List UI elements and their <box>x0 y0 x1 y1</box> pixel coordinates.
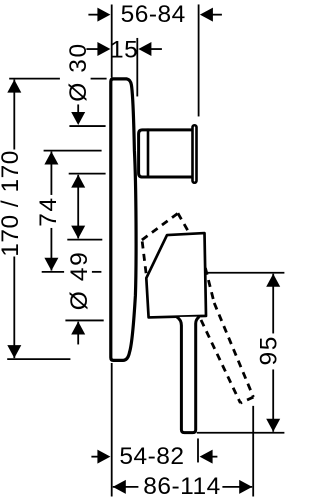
escutcheon plate (side view) <box>111 79 136 361</box>
arrow 95 bottom <box>266 419 280 432</box>
extension line lever edge <box>197 438 199 462</box>
arrow 86-114 left <box>113 480 126 494</box>
svg-text:54-82: 54-82 <box>119 443 184 470</box>
dim 95 top bar <box>206 272 284 274</box>
arrow 54-82 left <box>97 450 110 464</box>
svg-text:56-84: 56-84 <box>121 1 186 28</box>
svg-text:86-114: 86-114 <box>143 473 220 500</box>
dim D30 bottom bar <box>69 173 106 175</box>
dim 170 bottom bar <box>7 358 70 360</box>
arrow 170 bottom <box>7 345 21 358</box>
svg-text:95: 95 <box>256 335 283 365</box>
arrow D49 top <box>71 226 85 239</box>
arrow 15 right <box>138 42 151 56</box>
lever (solid, pointing down) <box>177 317 199 433</box>
arrow D30 top <box>71 112 85 125</box>
extension line wall top <box>111 4 113 77</box>
dim 170 top bar left piece <box>9 78 60 80</box>
svg-text:Ø 30: Ø 30 <box>65 42 92 102</box>
arrow 74 top <box>44 152 58 165</box>
arrow 56-84 right <box>200 8 213 22</box>
dim 86-114 right line segment <box>222 486 252 488</box>
extension line wall bottom <box>111 363 113 497</box>
arrow D30 bottom <box>71 175 85 188</box>
dim D49 bottom bar <box>65 319 103 321</box>
dim 95 line upper segment <box>272 274 274 334</box>
extension line knob end <box>198 4 200 116</box>
knob end cap <box>193 125 197 183</box>
knob body top edge <box>148 128 192 131</box>
arrow 170 top <box>7 80 21 93</box>
svg-text:170 / 170: 170 / 170 <box>0 150 24 257</box>
extension line dashed lever end <box>252 406 254 497</box>
arrow D49 bottom <box>71 321 85 334</box>
dim 74 bottom bar left piece <box>42 271 64 273</box>
handle base (solid) <box>146 233 206 317</box>
dashed handle outline rotated - right edge <box>205 268 214 303</box>
knob body bottom edge <box>148 176 192 179</box>
dashed lever right line <box>214 303 253 397</box>
dim 15 left arrow tail <box>86 48 100 50</box>
dim 56-84 right arrow tail <box>210 14 222 16</box>
dim 56-84 left arrow tail <box>88 14 100 16</box>
dim 170 line lower segment <box>13 256 15 358</box>
dim 86-114 left line segment <box>113 486 139 488</box>
arrow 86-114 right <box>239 480 252 494</box>
dim D30 upper arrow tail <box>77 104 79 115</box>
dashed lever end cap <box>240 397 253 403</box>
dim 74 bottom bar right piece <box>92 271 102 273</box>
svg-text:74: 74 <box>35 196 62 226</box>
dim 54-82 left arrow tail <box>91 456 100 458</box>
arrow 74 bottom <box>44 258 58 271</box>
dim 74 line lower segment <box>50 228 52 271</box>
dashed handle outline rotated - left edge <box>142 241 146 276</box>
dim 74 top bar <box>44 150 102 152</box>
dim 54-82 right arrow tail <box>210 456 217 458</box>
arrow 95 top <box>266 274 280 287</box>
knob collar <box>139 130 148 177</box>
dim 95 bottom bar <box>197 432 285 434</box>
dim 170 line upper segment <box>13 80 15 150</box>
svg-text:Ø 49: Ø 49 <box>66 251 93 311</box>
svg-text:15: 15 <box>110 36 138 63</box>
extension line knob grip start <box>136 38 138 96</box>
shared arrow line D30-D49 <box>77 175 79 239</box>
dashed handle outline rotated - right top edge <box>178 213 189 233</box>
dim D49 top bar <box>67 239 102 241</box>
dim D49 lower arrow tail <box>77 322 79 345</box>
dim 95 line lower segment <box>272 369 274 431</box>
dim 170 top bar right piece <box>91 78 107 80</box>
dashed lever left line <box>201 320 240 403</box>
arrow 15 left <box>97 42 110 56</box>
dim D30 top bar <box>69 125 105 127</box>
arrow 56-84 left <box>97 8 110 22</box>
dim 74 line upper segment <box>50 152 52 195</box>
dashed handle outline rotated - top edge <box>142 213 178 240</box>
arrow 54-82 right <box>200 450 213 464</box>
knob collar boundary line <box>147 128 150 178</box>
dim 15 right arrow tail <box>148 48 162 50</box>
